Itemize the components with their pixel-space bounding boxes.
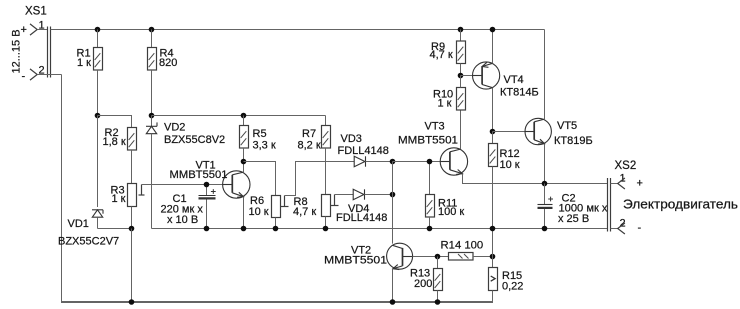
diode VD3 — [354, 156, 392, 166]
svg-text:+: + — [637, 178, 643, 190]
svg-text:820: 820 — [159, 57, 177, 69]
svg-text:MMBT5501: MMBT5501 — [398, 135, 458, 147]
wire node to R6 top — [244, 162, 276, 196]
resistor R15 — [489, 268, 498, 304]
wire rail down to VT5 collector — [544, 30, 546, 120]
svg-text:100 к: 100 к — [438, 206, 464, 218]
node C1 plus — [204, 182, 210, 188]
wire VT5 emitter down to output — [544, 144, 546, 184]
resistor R4 — [148, 48, 157, 71]
svg-text:10 к: 10 к — [500, 159, 520, 171]
wire VT5 base — [493, 131, 526, 133]
wire VD3 junction to VT3 base — [393, 161, 442, 163]
resistor R10 — [457, 76, 466, 111]
svg-text:КТ819Б: КТ819Б — [554, 135, 593, 147]
resistor R14 — [449, 253, 493, 261]
transistor VT3 — [440, 148, 467, 175]
wire VD1 anode to R3 bottom node — [98, 228, 132, 230]
svg-text:FDLL4148: FDLL4148 — [336, 212, 387, 224]
svg-text:10 к: 10 к — [249, 206, 269, 218]
wire R4 bottom lead — [151, 70, 153, 116]
svg-text:VT4: VT4 — [504, 74, 524, 86]
node R8 bottom — [323, 226, 329, 232]
wire R6 bottom lead — [275, 218, 277, 229]
wire mid rail to R5 R7 — [152, 115, 326, 117]
wire XS1 pin2 left rail down — [61, 75, 63, 304]
wire R11 top lead — [429, 162, 431, 195]
XS1 pin 1 contact — [30, 24, 48, 35]
svg-text:1 к: 1 к — [112, 193, 126, 205]
wire R1 top lead — [97, 30, 99, 48]
wire junction down to bottom rail — [131, 229, 133, 304]
node VD4 cathode junction — [390, 192, 396, 198]
node R11 top — [427, 159, 433, 165]
svg-text:R14 100: R14 100 — [441, 240, 484, 252]
wire common rail — [152, 228, 608, 230]
wire R8 bottom lead — [325, 217, 327, 229]
zener diode VD1 — [92, 210, 103, 229]
svg-text:VD2: VD2 — [164, 121, 185, 133]
XS1 connector body double bar — [48, 27, 51, 78]
diode VD4 — [353, 189, 392, 199]
node VT4 emitter on rail — [490, 27, 496, 33]
node R11 bottom — [427, 226, 433, 232]
svg-text:0,22: 0,22 — [502, 280, 523, 292]
node R9 top — [458, 27, 464, 33]
svg-text:R12: R12 — [500, 148, 520, 160]
zener diode VD2 — [146, 116, 157, 229]
XS2 pin 2 contact — [611, 223, 625, 234]
node VT4 collector / R12 / VT5 base — [490, 129, 496, 135]
svg-text:Электродвигатель: Электродвигатель — [623, 198, 738, 212]
node R5 top — [241, 113, 247, 119]
wire VT4 collector down — [492, 88, 494, 132]
svg-text:x 10 В: x 10 В — [167, 214, 198, 226]
node bottom rail x132 — [129, 299, 135, 305]
wire VT1 collector up — [243, 162, 245, 173]
svg-text:VT3: VT3 — [425, 121, 445, 133]
node VT2 emitter on bottom rail — [390, 299, 396, 305]
node VT5 emitter / C2 top — [542, 181, 548, 187]
svg-text:1: 1 — [39, 20, 45, 32]
wire VT4 emitter up to rail — [492, 30, 494, 64]
wire R4 top lead — [151, 30, 153, 48]
wire diode junction down to VT2 base — [392, 162, 394, 244]
svg-text:4,7 к: 4,7 к — [293, 206, 316, 218]
transistor VT2 — [387, 243, 413, 269]
node VT2 collector R13 R14 junction — [435, 254, 441, 260]
node R3/VD1 junction — [129, 226, 135, 232]
svg-text:1,8 к: 1,8 к — [103, 136, 126, 148]
wire bottom negative rail — [62, 301, 493, 303]
node C1 minus — [204, 226, 210, 232]
svg-text:8,2 к: 8,2 к — [298, 140, 321, 152]
node R6 bottom — [273, 226, 279, 232]
node R4 top — [149, 27, 155, 33]
transistor VT1 — [223, 171, 250, 198]
svg-text:MMBT5501: MMBT5501 — [170, 169, 228, 181]
wire R3 wiper to VT1 base — [142, 184, 233, 186]
wire junction down to VD1 — [97, 116, 99, 208]
resistor R9 — [457, 30, 466, 76]
XS2 connector body double bar — [608, 178, 611, 232]
wire VT3 collector up to R10 — [460, 110, 462, 149]
node C2 minus on common rail — [542, 226, 548, 232]
wire VT4 base — [461, 75, 473, 77]
svg-text:XS2: XS2 — [615, 160, 637, 172]
svg-text:MMBT5501: MMBT5501 — [324, 255, 387, 267]
svg-text:BZX55C8V2: BZX55C8V2 — [164, 134, 225, 146]
capacitor C1 — [199, 185, 216, 229]
wire VT2 collector to R13 node — [413, 256, 449, 258]
resistor R13 — [434, 257, 443, 304]
svg-text:12...15 В: 12...15 В — [11, 29, 23, 73]
node R1/R2/VD1 junction — [95, 113, 101, 119]
transistor VT4 — [473, 62, 500, 89]
svg-text:4,7 к: 4,7 к — [430, 49, 453, 61]
wire VT2 emitter to bottom rail — [392, 269, 394, 303]
resistor R11 — [426, 195, 435, 229]
svg-text:x 25 В: x 25 В — [558, 213, 589, 225]
resistor R7 — [322, 126, 331, 149]
wire R6 wiper up to VD3 wire — [285, 162, 355, 196]
svg-text:2: 2 — [39, 65, 45, 77]
svg-text:КТ814Б: КТ814Б — [500, 87, 539, 99]
node R5/VT1 collector junction — [241, 159, 247, 165]
wire VT3 emitter to output wire — [463, 174, 608, 184]
svg-text:R7: R7 — [302, 128, 316, 140]
wire VT1 emitter down — [243, 197, 245, 229]
node R1 top — [95, 27, 101, 33]
node VT1 emitter on rail — [241, 226, 247, 232]
svg-text:VD3: VD3 — [341, 133, 362, 145]
wire top positive rail — [51, 29, 545, 31]
resistor R1 — [94, 48, 103, 71]
resistor R5 — [240, 126, 249, 149]
svg-text:1 к: 1 к — [77, 57, 91, 69]
svg-text:BZX55C2V7: BZX55C2V7 — [58, 235, 119, 247]
node R12 column on common rail — [490, 226, 496, 232]
svg-text:VT5: VT5 — [557, 120, 577, 132]
wire R7 top lead — [325, 116, 327, 126]
wire R2 to R3 — [131, 150, 133, 184]
variable resistor R3 — [128, 184, 145, 207]
trimmer R6 — [272, 196, 289, 218]
svg-text:3,3 к: 3,3 к — [253, 140, 276, 152]
wire R5 bottom lead — [243, 148, 245, 162]
svg-text:XS1: XS1 — [25, 6, 47, 18]
wire R7 bottom to R8 top — [325, 148, 327, 195]
trimmer R8 — [322, 195, 339, 217]
XS1 pin 2 contact — [30, 69, 62, 80]
svg-text:VD1: VD1 — [68, 218, 89, 230]
node R4/VD2 junction — [149, 113, 155, 119]
transistor VT5 — [525, 118, 551, 144]
node R9/R10/VT4 base junction — [458, 73, 464, 79]
node R14 right junction — [490, 254, 496, 260]
resistor R12 — [489, 132, 498, 268]
wire R8 wiper to VD4 — [335, 194, 354, 196]
svg-text:-: - — [638, 222, 642, 234]
svg-text:FDLL4148: FDLL4148 — [338, 145, 389, 157]
wire R3 bottom lead — [131, 207, 133, 229]
XS2 pin 1 contact — [611, 178, 625, 189]
resistor R2 — [128, 128, 137, 151]
capacitor C2 — [538, 184, 554, 229]
wire R1 bottom lead — [97, 70, 99, 116]
svg-text:200: 200 — [414, 278, 432, 290]
wire junction to R2 top — [98, 116, 132, 128]
svg-text:R5: R5 — [253, 128, 267, 140]
node VD3 cathode junction — [390, 159, 396, 165]
wire R5 top lead — [243, 116, 245, 126]
svg-text:1 к: 1 к — [438, 98, 452, 110]
node R13 bottom — [435, 299, 441, 305]
